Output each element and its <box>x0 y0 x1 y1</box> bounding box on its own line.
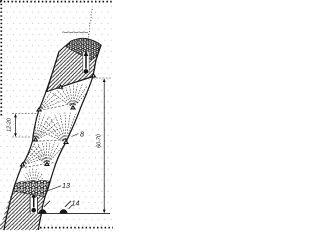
dotted frame border bottom <box>40 227 113 229</box>
left dimension line <box>15 115 17 137</box>
svg-text:12-20: 12-20 <box>7 118 13 132</box>
dotted caving-limit line to surface <box>89 9 93 39</box>
leader for label 8 <box>72 134 79 137</box>
left dimension ref line upper <box>12 113 37 115</box>
right dimension line <box>103 80 105 213</box>
leader for label 13 <box>47 186 61 191</box>
drill-hole fan from drift M6 <box>39 130 66 142</box>
hatched bottom pillar block <box>0 191 45 230</box>
surface wavy line <box>62 31 88 34</box>
paper background <box>0 0 113 232</box>
hatched ore massif (upper block + band top) <box>47 38 101 91</box>
up-arrow with ring in crown raise <box>84 51 89 56</box>
broken ore (magazine) zone above chute <box>13 181 51 198</box>
drill-hole fan from drift M4 <box>52 93 73 108</box>
leader for label 14 <box>69 205 73 210</box>
svg-text:60-70: 60-70 <box>96 134 102 148</box>
ore draw flow lines converging to chute mouth <box>24 169 45 188</box>
sublevel dashed line L3 <box>32 140 70 142</box>
vein foot-wall (right) edge <box>39 45 102 230</box>
drift marker M7 <box>20 162 26 167</box>
right dimension ref line top <box>93 77 112 79</box>
sublevel dashed line L2 <box>36 102 79 112</box>
up-arrow with ring in chute <box>31 192 36 197</box>
broken-ore top dashed line <box>18 163 55 169</box>
drill-hole fan from drift M5 <box>14 123 35 140</box>
svg-text:13: 13 <box>62 181 70 190</box>
drift marker M2 <box>91 73 97 78</box>
dotted frame border top <box>0 1 113 3</box>
drift marker M1 <box>58 84 64 89</box>
vein hanging-wall (left) edge <box>4 52 59 231</box>
drawpoint dome S2 <box>60 209 68 213</box>
svg-text:8: 8 <box>80 130 84 139</box>
caved broken-rock zone at crown <box>66 38 101 59</box>
haulage level line <box>38 213 110 215</box>
drill-hole fan from drift M7 <box>9 144 23 165</box>
drawpoint dome S1 <box>39 209 47 213</box>
drift marker M4 <box>70 105 76 110</box>
drift marker M8 <box>44 161 50 166</box>
drift marker M3 <box>36 107 42 112</box>
drift marker M5 <box>33 137 39 142</box>
dotted frame border left <box>0 0 2 117</box>
drill-hole fan from drift M8 <box>27 151 47 164</box>
undercut line L1 (solid) <box>47 77 94 92</box>
left dimension ref line lower <box>12 136 31 138</box>
raise / chute in crown (white slot) <box>83 52 89 72</box>
svg-text:14: 14 <box>72 199 80 208</box>
drift marker M6 <box>63 139 69 144</box>
drill-hole fan from drift M3 <box>24 100 39 110</box>
ore chute slot (white) <box>30 196 38 213</box>
